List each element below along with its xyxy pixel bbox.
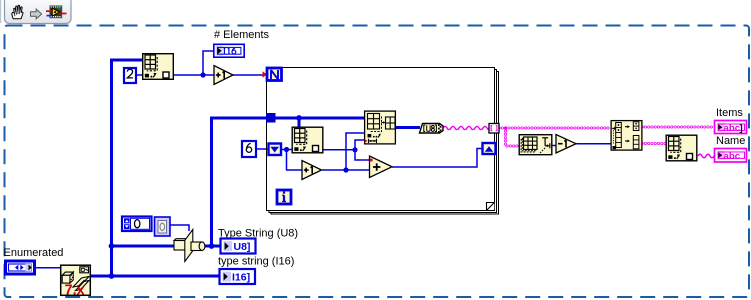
svg-text:Name: Name (716, 135, 745, 147)
svg-text:I16]: I16] (232, 272, 250, 284)
svg-text:type string (I16): type string (I16) (218, 256, 294, 268)
svg-text:abc: abc (724, 151, 741, 162)
svg-text:abc: abc (724, 123, 741, 134)
svg-text:Enumerated: Enumerated (4, 247, 64, 259)
svg-text:# Elements: # Elements (214, 29, 270, 41)
svg-text:7.x: 7.x (65, 283, 85, 299)
svg-text:U8]: U8] (234, 241, 251, 253)
svg-text:]: ] (740, 123, 743, 134)
svg-text:Items: Items (716, 107, 743, 119)
